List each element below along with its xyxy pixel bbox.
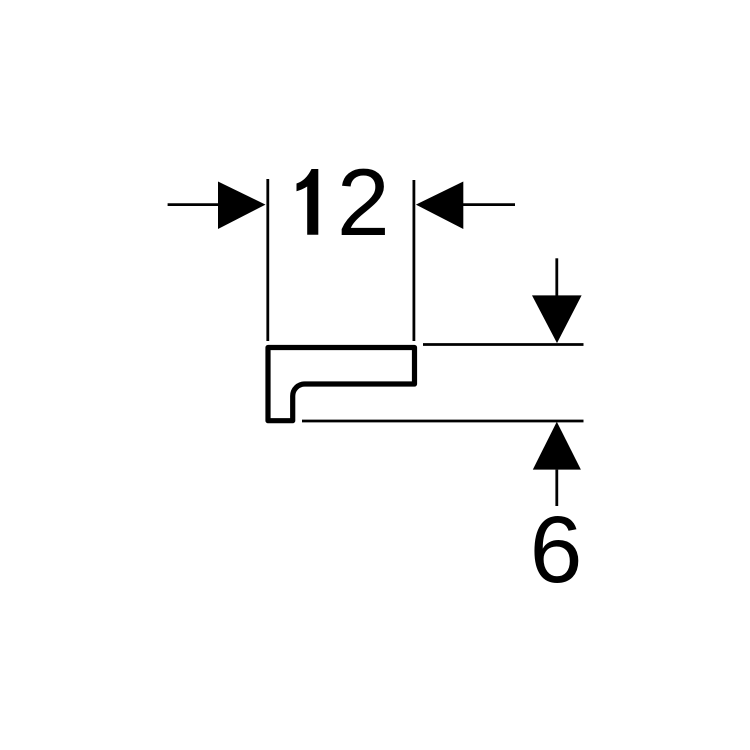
node down arrowhead xyxy=(532,295,582,343)
node right arrowhead pointing left xyxy=(416,182,463,230)
profile cross-section outline xyxy=(268,348,415,421)
wire right arrow tail xyxy=(463,203,515,206)
value label 12 digit 1 xyxy=(297,169,319,235)
wire top reference line xyxy=(423,343,584,346)
wire up arrow tail xyxy=(555,470,558,506)
wire down arrow tail xyxy=(555,258,558,297)
wire left arrow tail xyxy=(168,203,222,206)
node up arrowhead xyxy=(533,422,581,470)
wire left extension line of dimension 12 xyxy=(266,179,269,341)
node left arrowhead pointing right xyxy=(218,182,266,230)
wire bottom reference line xyxy=(302,420,584,423)
wire right extension line of dimension 12 xyxy=(412,180,415,341)
svg-text:2: 2 xyxy=(337,150,390,256)
svg-text:6: 6 xyxy=(530,497,583,603)
